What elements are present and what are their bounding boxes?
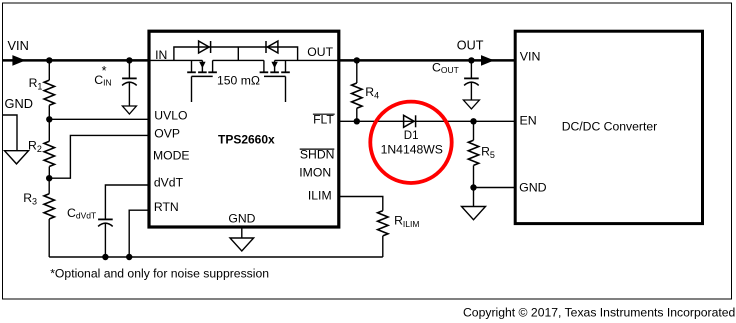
svg-text:OUT: OUT — [307, 45, 333, 59]
ground CIN — [122, 106, 136, 114]
junction dot RTN-bottom — [126, 254, 132, 260]
ground R5 — [462, 207, 486, 220]
wire internal diode row — [174, 47, 298, 60]
svg-text:1N4148WS: 1N4148WS — [381, 143, 443, 157]
svg-text:GND: GND — [5, 96, 33, 111]
wire ILIM — [339, 197, 383, 211]
highlight red circle — [370, 102, 451, 183]
wire bottom rail — [49, 256, 383, 258]
junction dot FLT-R4 — [354, 118, 360, 124]
svg-text:UVLO: UVLO — [154, 108, 187, 122]
junction dot OUT-R4 — [354, 57, 360, 63]
junction dot R1-R2-UVLO — [46, 116, 52, 122]
svg-text:D1: D1 — [404, 130, 419, 142]
wire IN internal — [149, 59, 202, 61]
svg-text:Copyright © 2017, Texas Instru: Copyright © 2017, Texas Instruments Inco… — [463, 306, 735, 320]
svg-text:GND: GND — [519, 181, 547, 195]
svg-text:*Optional and only for noise s: *Optional and only for noise suppression — [50, 267, 269, 281]
wire FLT row — [339, 120, 517, 122]
svg-text:VIN: VIN — [8, 38, 29, 53]
svg-text:RTN: RTN — [154, 200, 179, 214]
svg-text:150 mΩ: 150 mΩ — [217, 74, 260, 88]
resistor R3 — [48, 178, 50, 194]
wire IC GND pin — [241, 227, 243, 238]
resistor R5 — [473, 121, 475, 140]
ground COUT — [463, 100, 479, 109]
svg-text:DC/DC Converter: DC/DC Converter — [562, 120, 658, 134]
svg-text:OVP: OVP — [154, 127, 180, 141]
IC box TPS2660x — [149, 31, 339, 227]
svg-text:dVdT: dVdT — [154, 175, 184, 189]
junction dot FLT-R5 — [470, 118, 476, 124]
junction dot VIN-CIN — [126, 57, 132, 63]
svg-text:IMON: IMON — [299, 165, 331, 179]
wire dVdT — [105, 185, 149, 219]
wire GND input — [3, 115, 17, 151]
resistor R2 — [48, 119, 50, 141]
transistor Q1 left FET — [191, 60, 193, 72]
transistor Q2 right FET — [263, 60, 265, 72]
svg-text:GND: GND — [228, 211, 255, 225]
resistor RILIM — [378, 211, 388, 236]
diode D1 — [404, 115, 415, 127]
junction dot R2-R3-OVP — [46, 175, 52, 181]
ground input — [5, 151, 29, 164]
capacitor CIN — [128, 60, 130, 78]
wire R5 ground stub — [473, 188, 475, 207]
node VIN arrowhead — [12, 55, 25, 66]
svg-text:TPS2660x: TPS2660x — [218, 132, 275, 146]
DC/DC converter box — [515, 31, 702, 223]
wire center tap — [237, 47, 239, 60]
wire VIN rail — [3, 59, 150, 62]
resistor R4 — [356, 60, 358, 83]
capacitor CdVdT — [98, 218, 113, 220]
diode body left — [199, 41, 210, 53]
capacitor COUT — [470, 60, 472, 78]
wire UVLO — [49, 118, 149, 120]
wire OVP — [49, 135, 149, 178]
junction dot OUT-COUT — [468, 57, 474, 63]
svg-text:EN: EN — [520, 114, 537, 128]
svg-text:VIN: VIN — [520, 50, 541, 64]
ground IC — [230, 238, 254, 251]
junction dot R5-GND — [470, 184, 476, 190]
diode body right — [267, 41, 278, 53]
wire OUT rail — [338, 59, 517, 62]
wire RTN — [129, 210, 149, 257]
node OUT arrowhead — [481, 55, 494, 66]
wire GND row right — [474, 187, 517, 189]
svg-text:MODE: MODE — [153, 149, 190, 163]
svg-text:OUT: OUT — [457, 39, 484, 53]
junction dot CdVdT-bottom — [102, 254, 108, 260]
junction dot VIN-R1 — [46, 57, 52, 63]
resistor R1 — [48, 60, 50, 80]
wire center node — [213, 59, 264, 61]
wire OUT internal — [275, 59, 338, 61]
svg-text:ILIM: ILIM — [308, 188, 332, 202]
